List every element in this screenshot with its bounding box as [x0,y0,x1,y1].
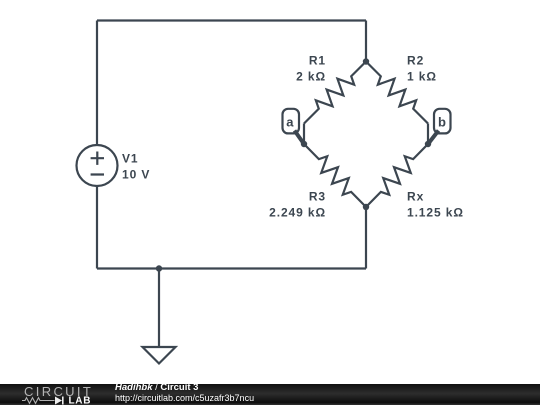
svg-text:R1: R1 [309,54,326,68]
svg-text:2.249 kΩ: 2.249 kΩ [269,205,326,219]
svg-text:1 kΩ: 1 kΩ [407,69,437,83]
svg-text:1.125 kΩ: 1.125 kΩ [407,205,464,219]
svg-text:LAB: LAB [69,395,92,405]
svg-text:10 V: 10 V [122,167,150,181]
svg-text:2 kΩ: 2 kΩ [296,69,326,83]
svg-text:V1: V1 [122,151,138,165]
svg-text:Rx: Rx [407,190,424,204]
svg-text:b: b [438,114,447,129]
svg-text:R3: R3 [309,190,326,204]
svg-text:a: a [286,114,294,129]
svg-text:R2: R2 [407,54,424,68]
